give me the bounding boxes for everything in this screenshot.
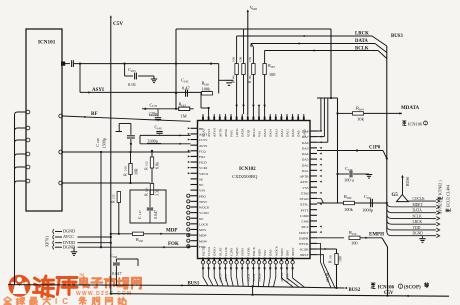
svg-text:155: 155 [112, 194, 116, 199]
svg-text:DA1: DA1 [302, 169, 309, 173]
svg-text:XRST: XRST [291, 248, 295, 256]
svg-text:MDET: MDET [413, 203, 424, 207]
svg-text:DA10: DA10 [291, 129, 295, 137]
svg-text:VSS: VSS [302, 186, 308, 190]
svg-text:0.047: 0.047 [153, 210, 158, 219]
svg-text:BUS2: BUS2 [349, 288, 361, 293]
svg-text:VDD: VDD [246, 129, 250, 137]
svg-text:MUTE: MUTE [202, 247, 206, 256]
svg-text:FILD: FILD [199, 161, 207, 165]
svg-text:RF: RF [91, 112, 98, 117]
svg-text:DA5: DA5 [302, 146, 309, 150]
svg-text:FOK: FOK [168, 242, 179, 247]
svg-text:TEST: TEST [199, 200, 208, 204]
svg-text:SCLK: SCLK [413, 214, 423, 218]
svg-text:DGND: DGND [63, 229, 75, 234]
svg-text:GSCN: GSCN [218, 273, 222, 282]
svg-text:CLTV: CLTV [199, 138, 208, 142]
svg-text:XLAT: XLAT [224, 274, 228, 282]
svg-text:COCLK: COCLK [413, 197, 426, 201]
svg-text:VSS: VSS [258, 131, 262, 137]
svg-text:ATSK: ATSK [224, 128, 228, 137]
svg-text:1M: 1M [181, 114, 187, 119]
svg-text:162: 162 [145, 161, 149, 166]
svg-text:150: 150 [248, 57, 252, 62]
svg-text:138: 138 [112, 255, 117, 259]
svg-text:BCLK: BCLK [355, 47, 369, 52]
svg-text:220p: 220p [149, 111, 159, 116]
svg-text:DOUT: DOUT [299, 231, 309, 235]
svg-text:DA14: DA14 [269, 129, 273, 137]
svg-text:XTAI: XTAI [301, 191, 310, 195]
svg-text:165: 165 [131, 69, 136, 73]
svg-text:R: R [328, 260, 333, 263]
svg-text:APTR: APTR [300, 175, 309, 179]
svg-text:APTR: APTR [218, 128, 222, 137]
svg-text:167: 167 [270, 65, 275, 69]
svg-text:MSW: MSW [199, 239, 208, 243]
svg-text:XTSL: XTSL [300, 203, 308, 207]
svg-text:BUS1: BUS1 [188, 281, 200, 286]
svg-text:AVSS: AVSS [199, 144, 207, 148]
svg-text:MTS: MTS [199, 228, 206, 232]
svg-text:WFCK: WFCK [299, 242, 309, 246]
svg-text:SCOR: SCOR [300, 248, 310, 252]
svg-text:100k: 100k [344, 207, 354, 212]
svg-text:DATO: DATO [213, 247, 217, 256]
svg-text:C2PO: C2PO [230, 247, 234, 256]
svg-text:DA12: DA12 [280, 129, 284, 137]
svg-text:DATA: DATA [241, 128, 245, 137]
svg-text:166: 166 [249, 75, 252, 80]
svg-text:100: 100 [238, 57, 242, 62]
svg-text:ICN106: ICN106 [408, 122, 423, 127]
svg-text:130: 130 [348, 168, 353, 172]
svg-text:XRST: XRST [300, 253, 310, 257]
svg-text:NC: NC [199, 217, 204, 221]
svg-text:SENS: SENS [241, 248, 245, 256]
svg-text:DATA: DATA [413, 209, 423, 213]
svg-text:IC: IC [55, 297, 73, 305]
svg-text:SE: SE [199, 177, 203, 181]
svg-text:BUS3: BUS3 [391, 34, 403, 39]
svg-text:R: R [144, 167, 149, 170]
svg-text:R: R [111, 200, 116, 203]
svg-text:160: 160 [124, 166, 128, 171]
svg-text:EXCK: EXCK [258, 273, 262, 282]
svg-text:ASYO: ASYO [213, 127, 217, 137]
svg-text:(SCOP): (SCOP) [404, 286, 421, 291]
svg-text:CXD2500BQ: CXD2500BQ [232, 174, 258, 179]
svg-text:DA3: DA3 [302, 158, 309, 162]
svg-text:NC: NC [199, 183, 204, 187]
svg-text:LRCK: LRCK [413, 220, 423, 224]
svg-text:182: 182 [367, 196, 372, 200]
svg-text:6.8k: 6.8k [155, 162, 160, 169]
svg-text:BCLK: BCLK [252, 128, 256, 137]
svg-text:100: 100 [339, 256, 343, 262]
svg-text:AVCC: AVCC [63, 234, 74, 239]
svg-text:VCOO: VCOO [199, 211, 209, 215]
svg-text:ECU2 CL4#4: ECU2 CL4#4 [446, 185, 451, 207]
svg-text:RLAF: RLAF [202, 128, 206, 137]
svg-text:180: 180 [347, 196, 352, 200]
svg-text:VSS: VSS [263, 250, 267, 256]
svg-text:VCKI: VCKI [199, 166, 208, 170]
svg-text:PDO: PDO [199, 194, 206, 198]
svg-text:DA15: DA15 [263, 129, 267, 137]
svg-text:C16M: C16M [300, 214, 309, 218]
svg-text:EMPH: EMPH [299, 236, 309, 240]
svg-text:DA13: DA13 [274, 129, 278, 137]
svg-text:XLAT: XLAT [218, 248, 222, 256]
svg-text:C1P0: C1P0 [369, 146, 381, 151]
svg-text:APTL: APTL [300, 180, 308, 184]
svg-text:0.047: 0.047 [112, 271, 121, 276]
svg-text:SQCK: SQCK [246, 273, 250, 282]
svg-text:147: 147 [138, 210, 142, 215]
svg-text:BUS0: BUS0 [406, 177, 410, 186]
svg-text:SCOR: SCOR [326, 272, 330, 282]
svg-text:DA4: DA4 [302, 152, 309, 156]
svg-text:SQSO: SQSO [235, 247, 239, 256]
svg-text:PSSL: PSSL [230, 129, 234, 137]
svg-text:MON: MON [280, 248, 284, 256]
svg-text:DA2: DA2 [302, 163, 309, 167]
svg-text:C: C [137, 216, 142, 219]
svg-text:0.47: 0.47 [182, 86, 190, 91]
svg-text:DGND: DGND [413, 232, 424, 236]
svg-text:C4M: C4M [302, 220, 309, 224]
svg-text:XTAO: XTAO [299, 197, 309, 201]
svg-text:1: 1 [400, 285, 402, 289]
svg-text:ICN101: ICN101 [38, 40, 56, 46]
svg-text:EMPH: EMPH [369, 233, 384, 238]
svg-text:XP702 (: XP702 ( [438, 200, 443, 214]
svg-text:XP701: XP701 [45, 236, 50, 247]
svg-text:10R: 10R [134, 168, 139, 175]
svg-text:FILI: FILI [199, 155, 206, 159]
svg-text:DIN: DIN [286, 250, 290, 256]
svg-text:100: 100 [269, 72, 275, 77]
svg-text:R: R [123, 173, 128, 176]
svg-text:100: 100 [351, 241, 358, 246]
svg-text:DA6: DA6 [302, 141, 309, 145]
svg-text:148: 148 [232, 75, 235, 80]
svg-text:R: R [144, 193, 149, 196]
svg-text:MDP: MDP [199, 234, 206, 238]
svg-text:VDD: VDD [413, 226, 421, 230]
svg-text:LRCK: LRCK [235, 128, 239, 137]
svg-text:ASYI: ASYI [207, 129, 211, 137]
svg-text:100 u: 100 u [344, 178, 355, 183]
svg-text:MDSW: MDSW [280, 272, 284, 282]
svg-text:0.01: 0.01 [128, 82, 137, 87]
svg-text:WDCK: WDCK [199, 206, 210, 210]
svg-text:C5V: C5V [384, 291, 394, 296]
svg-text:VPCO: VPCO [199, 172, 209, 176]
svg-text:DA9: DA9 [297, 130, 301, 137]
svg-text:EXCK: EXCK [252, 246, 256, 256]
svg-text:WDCK: WDCK [274, 245, 278, 256]
svg-text:FSTT: FSTT [301, 208, 310, 212]
svg-text:140: 140 [96, 138, 100, 143]
svg-text:SCLK: SCLK [252, 273, 256, 282]
svg-text:GFSW: GFSW [286, 273, 290, 282]
svg-text:150: 150 [352, 232, 357, 236]
svg-text:DD: DD [252, 7, 257, 11]
svg-text:140: 140 [157, 126, 162, 130]
svg-text:DATA: DATA [355, 39, 368, 44]
svg-text:DA16: DA16 [302, 129, 306, 137]
svg-text:142: 142 [184, 79, 189, 83]
svg-text:10k: 10k [357, 117, 365, 122]
svg-text:181: 181 [329, 254, 333, 259]
svg-text:DGND: DGND [63, 244, 75, 249]
svg-text:FCQ: FCQ [199, 149, 206, 153]
svg-text:DA11: DA11 [286, 129, 290, 137]
svg-text:100: 100 [231, 57, 235, 62]
svg-text:KTN02 ): KTN02 ) [438, 180, 443, 195]
svg-text:ICN102: ICN102 [239, 167, 256, 172]
svg-text:1000p: 1000p [362, 208, 374, 213]
svg-text:161: 161 [145, 187, 149, 192]
svg-text:1500p: 1500p [102, 138, 107, 148]
svg-text:CLOK: CLOK [224, 246, 228, 256]
svg-text:LRCK: LRCK [355, 32, 369, 37]
svg-text:178: 178 [152, 104, 157, 108]
svg-text:MDATA: MDATA [401, 106, 420, 111]
svg-text:156: 156 [138, 239, 143, 243]
svg-text:ASYI: ASYI [92, 88, 104, 93]
svg-text:LOCK: LOCK [199, 222, 209, 226]
svg-text:ICN106: ICN106 [378, 286, 395, 291]
svg-text:CLKO: CLKO [207, 246, 211, 256]
svg-text:100k: 100k [202, 87, 212, 92]
svg-text:2: 2 [425, 122, 427, 126]
svg-text:G5: G5 [392, 193, 399, 198]
svg-text:MDS: MDS [258, 249, 262, 256]
svg-text:VSS: VSS [199, 189, 205, 193]
svg-text:SCOR: SCOR [246, 247, 250, 256]
svg-text:3300p: 3300p [147, 138, 157, 143]
svg-text:MC2: MC2 [302, 225, 309, 229]
svg-text:164: 164 [359, 107, 364, 111]
svg-text:DA0: DA0 [269, 249, 273, 256]
svg-text:MDP: MDP [166, 229, 177, 234]
svg-text:C5V: C5V [113, 21, 123, 27]
